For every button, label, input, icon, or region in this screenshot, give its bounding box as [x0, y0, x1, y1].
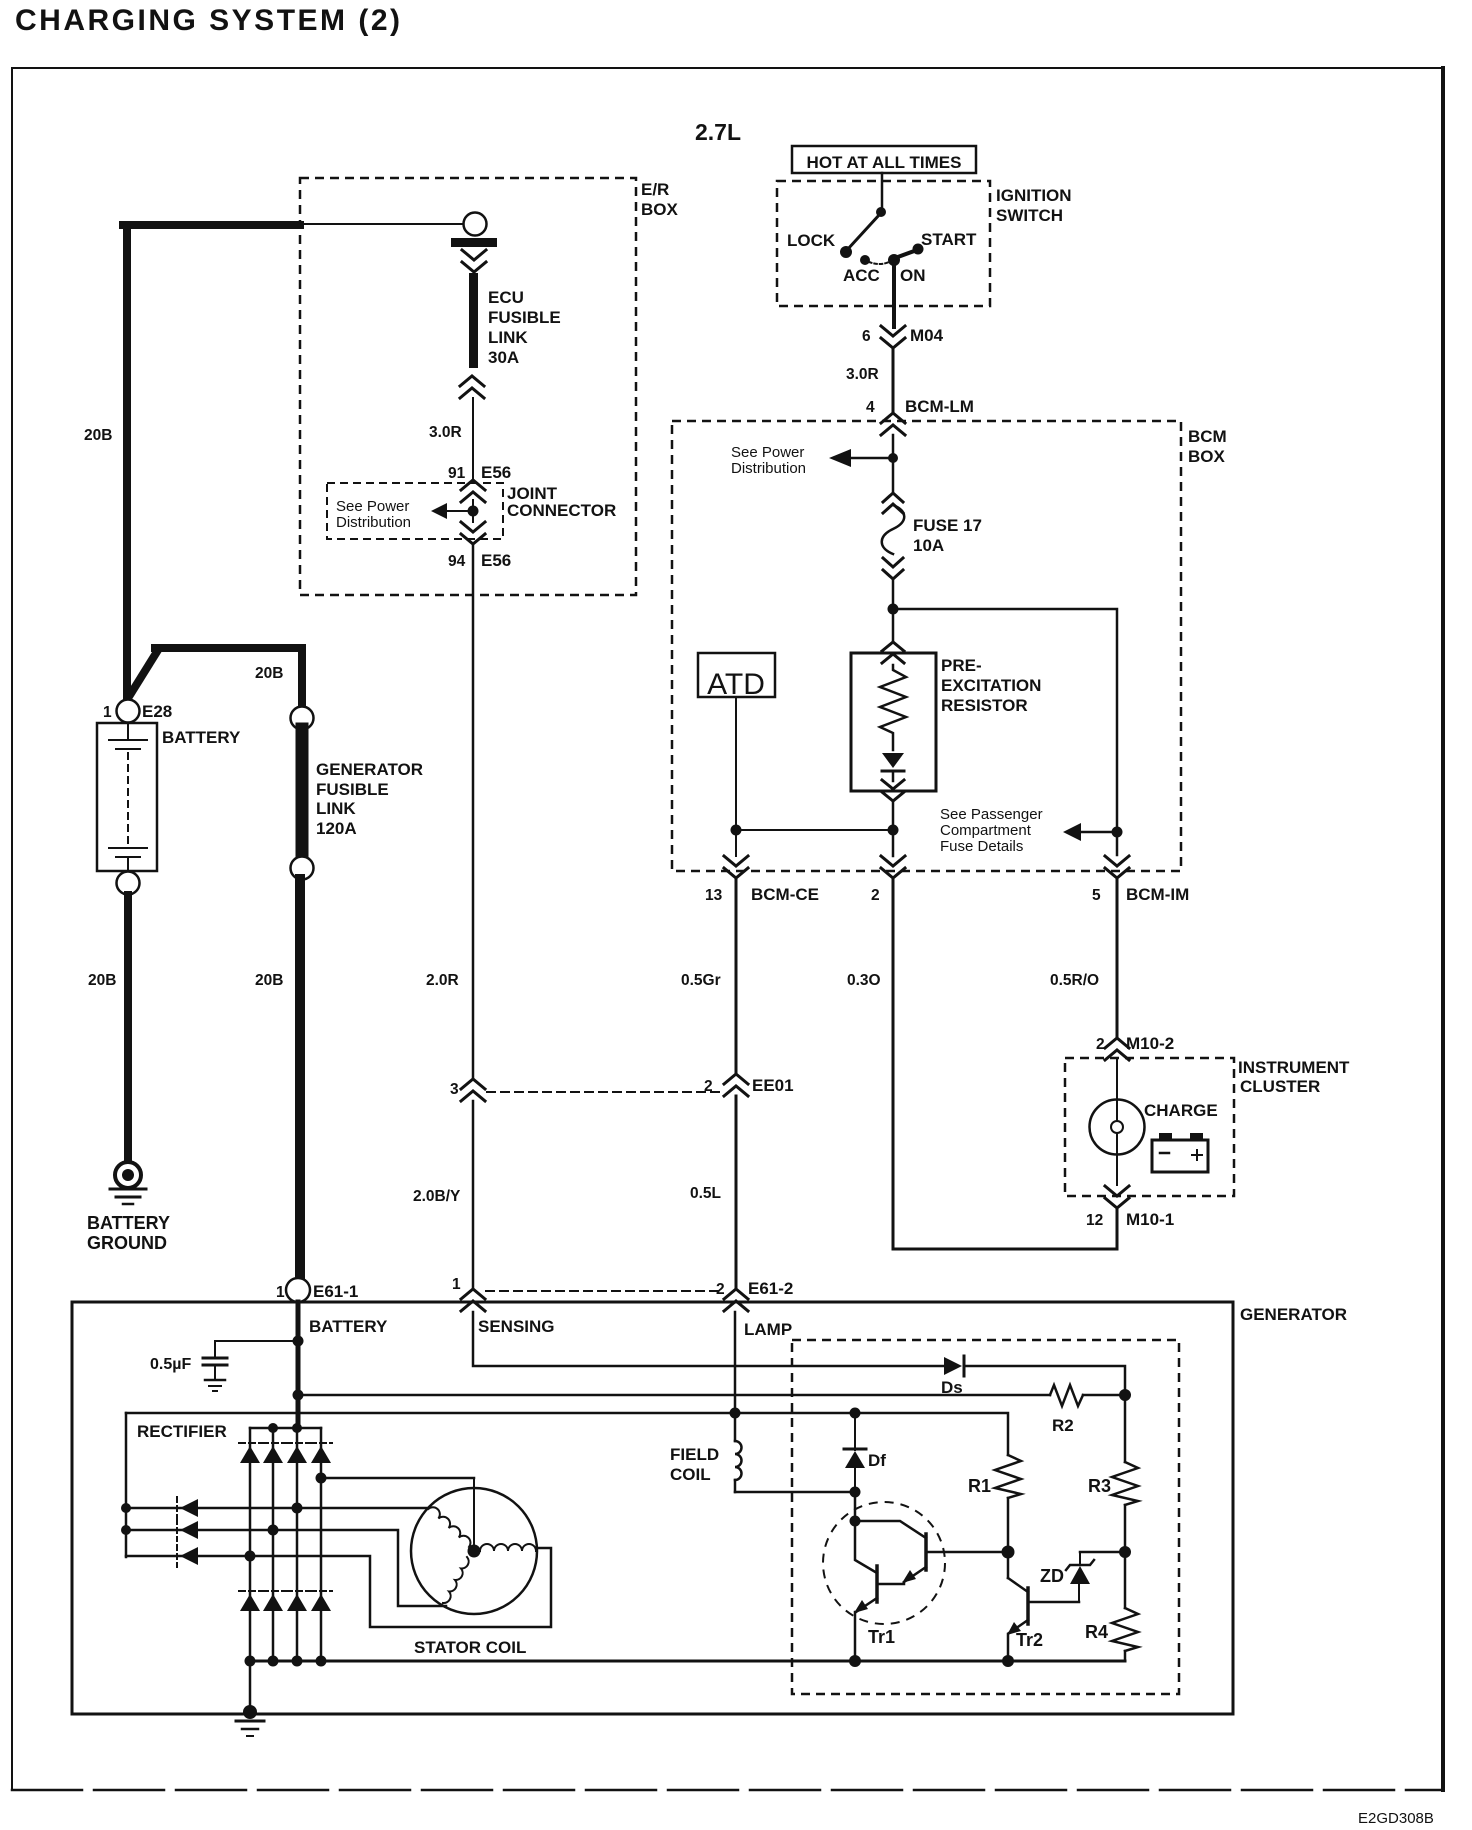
- svg-text:RESISTOR: RESISTOR: [941, 696, 1028, 715]
- svg-text:LINK: LINK: [488, 328, 528, 347]
- capacitor 0.5uF: [203, 1341, 298, 1391]
- wire 0.3O: [892, 878, 895, 1249]
- negative diode 2: [262, 1590, 284, 1592]
- svg-text:5: 5: [1092, 887, 1101, 904]
- junction dot R3 bottom: [1119, 1546, 1131, 1558]
- generator ground symbol: [236, 1720, 264, 1723]
- negative diode 1: [239, 1590, 261, 1592]
- connector 13 BCM-CE chevrons down: [724, 856, 748, 878]
- svg-text:0.5R/O: 0.5R/O: [1050, 972, 1099, 989]
- field coil bottom wire: [735, 1491, 855, 1494]
- wire after Ds: [966, 1366, 1125, 1395]
- svg-text:E61-1: E61-1: [313, 1282, 358, 1301]
- wire to ECU fusible link circle: [300, 223, 463, 225]
- svg-text:94: 94: [448, 553, 466, 570]
- svg-text:6: 6: [862, 328, 871, 345]
- svg-text:E28: E28: [142, 702, 172, 721]
- svg-text:13: 13: [705, 887, 723, 904]
- Tr2 base line: [1028, 1601, 1079, 1604]
- phase line 2: [126, 1530, 446, 1606]
- svg-text:RECTIFIER: RECTIFIER: [137, 1422, 227, 1441]
- wire below M10-1: [1116, 1208, 1119, 1249]
- svg-text:GENERATOR: GENERATOR: [316, 760, 423, 779]
- START contact arm: [895, 250, 917, 258]
- pre-excitation diode: [882, 753, 904, 768]
- instrument cluster dashed box: [1065, 1058, 1234, 1196]
- stator feed line: [321, 1477, 474, 1480]
- resistor R4: [1124, 1552, 1127, 1608]
- connector 2 E61-2 chevrons up: [724, 1289, 748, 1311]
- rectifier column 2: [272, 1428, 275, 1661]
- joint connector dashed box: [327, 483, 503, 539]
- battery indicator icon: [1152, 1133, 1208, 1172]
- svg-text:FUSIBLE: FUSIBLE: [488, 308, 561, 327]
- svg-text:ON: ON: [900, 266, 926, 285]
- see power distribution arrow: [446, 510, 468, 512]
- wire below fuse: [892, 579, 895, 641]
- wire into BCM: [892, 435, 895, 491]
- wire linking branch dots: [736, 829, 893, 831]
- connector 2 M10-2 chevrons up: [1105, 1038, 1129, 1060]
- connector 5 BCM-IM chevrons down: [1105, 856, 1129, 878]
- exciter diode 1: [176, 1497, 178, 1519]
- wire B+ rail to R2: [298, 1394, 1050, 1397]
- wire 20B battery positive vertical: [123, 225, 131, 699]
- wire lamp return horizontal: [893, 1248, 1117, 1251]
- Tr1 output base bar: [875, 1566, 879, 1602]
- svg-text:1: 1: [103, 704, 112, 721]
- svg-text:BCM-IM: BCM-IM: [1126, 885, 1189, 904]
- rectifier ground drop: [249, 1661, 252, 1712]
- svg-text:SENSING: SENSING: [478, 1317, 555, 1336]
- junction dot fuse output: [888, 604, 899, 615]
- battery bottom terminal circle: [117, 872, 140, 895]
- wire 0.5R/O: [1116, 878, 1119, 1038]
- connector chevrons below bar: [462, 250, 486, 272]
- svg-text:FUSE 17: FUSE 17: [913, 516, 982, 535]
- rectifier left rail: [125, 1413, 128, 1557]
- svg-text:0.5µF: 0.5µF: [150, 1356, 191, 1373]
- wire in joint connector: [472, 500, 474, 522]
- dotted arc ACC to ON: [869, 262, 889, 264]
- positive diode 4: [310, 1442, 332, 1444]
- junction dot Df top: [850, 1408, 861, 1419]
- fuse 17 element: [882, 505, 905, 554]
- zener diode ZD: [1078, 1584, 1080, 1602]
- svg-text:12: 12: [1086, 1212, 1103, 1229]
- rectifier top rail: [250, 1427, 321, 1430]
- wire sensing drop: [473, 1312, 944, 1366]
- connector 12 M10-1 chevrons down: [1105, 1186, 1129, 1208]
- svg-text:EXCITATION: EXCITATION: [941, 676, 1041, 695]
- svg-text:Tr2: Tr2: [1016, 1630, 1043, 1650]
- ECU fusible link top bar: [451, 238, 497, 247]
- svg-text:2.0B/Y: 2.0B/Y: [413, 1188, 461, 1205]
- wire lamp into generator: [734, 1312, 737, 1441]
- exciter diode 3: [176, 1545, 178, 1567]
- svg-text:2: 2: [716, 1281, 725, 1298]
- svg-text:FUSIBLE: FUSIBLE: [316, 780, 389, 799]
- wire 20B branch diagonal: [130, 650, 158, 695]
- negative diode 4: [310, 1590, 332, 1592]
- connector 94 E56 chevrons: [461, 522, 485, 544]
- stator coil circle: [411, 1488, 537, 1614]
- connector 1 sensing chevrons: [461, 1289, 485, 1311]
- svg-text:Df: Df: [868, 1451, 886, 1470]
- pre-excitation chevrons bottom: [882, 780, 904, 801]
- svg-text:0.5Gr: 0.5Gr: [681, 972, 721, 989]
- Tr1 driver base bar: [924, 1534, 928, 1570]
- svg-text:PRE-: PRE-: [941, 656, 982, 675]
- junction dot Df bottom: [850, 1487, 861, 1498]
- svg-text:CLUSTER: CLUSTER: [1240, 1077, 1320, 1096]
- svg-text:INSTRUMENT: INSTRUMENT: [1238, 1058, 1350, 1077]
- diode Ds: [944, 1357, 962, 1375]
- svg-text:E61-2: E61-2: [748, 1279, 793, 1298]
- svg-text:BATTERY: BATTERY: [309, 1317, 388, 1336]
- wire 3.0R in E/R box: [472, 398, 474, 479]
- Tr1 driver collector: [855, 1521, 926, 1538]
- battery ground symbol: [110, 1162, 146, 1204]
- svg-text:M04: M04: [910, 326, 944, 345]
- wire 0.5Gr: [735, 878, 738, 1073]
- svg-text:GROUND: GROUND: [87, 1233, 167, 1253]
- svg-text:91: 91: [448, 465, 466, 482]
- svg-text:E56: E56: [481, 463, 511, 482]
- wire 3.0R to BCM: [892, 348, 895, 412]
- svg-text:BOX: BOX: [1188, 447, 1226, 466]
- stator coil upper-left winding: [428, 1507, 470, 1547]
- svg-text:Distribution: Distribution: [336, 514, 411, 531]
- Tr1 driver base line: [928, 1551, 1006, 1554]
- junction dot field coil top: [730, 1408, 741, 1419]
- svg-text:EE01: EE01: [752, 1076, 794, 1095]
- svg-text:20B: 20B: [84, 427, 112, 444]
- LOCK contact dot: [840, 246, 852, 258]
- svg-text:E2GD308B: E2GD308B: [1358, 1810, 1434, 1827]
- connector 4 BCM-LM chevrons up: [881, 413, 905, 435]
- ATD box: [698, 653, 775, 697]
- rectifier column 4: [320, 1428, 323, 1661]
- positive diode 3: [286, 1442, 308, 1444]
- svg-text:LINK: LINK: [316, 799, 356, 818]
- wire 2.0R down from E/R box: [472, 544, 475, 1078]
- field coil rail with R1 drop: [126, 1413, 1008, 1455]
- resistor R1: [995, 1455, 1021, 1498]
- svg-text:See Power: See Power: [731, 444, 804, 461]
- svg-text:2: 2: [1096, 1036, 1105, 1053]
- svg-text:1: 1: [452, 1276, 461, 1293]
- svg-text:ECU: ECU: [488, 288, 524, 307]
- exciter diode 2: [176, 1519, 178, 1541]
- rectifier column 3: [296, 1428, 299, 1661]
- transistor Tr1 darlington circle: [823, 1502, 945, 1624]
- svg-text:0.5L: 0.5L: [690, 1185, 721, 1202]
- connector E28 circle: [117, 700, 140, 723]
- svg-text:BATTERY: BATTERY: [87, 1213, 170, 1233]
- wire 20B branch horizontal: [155, 644, 302, 652]
- BCM box dashed outline: [672, 421, 1181, 871]
- Tr1 output emitter: [856, 1598, 877, 1612]
- connector 3 chevrons: [461, 1079, 485, 1101]
- svg-text:LOCK: LOCK: [787, 231, 836, 250]
- svg-text:R3: R3: [1088, 1476, 1111, 1496]
- pre-excitation resistor box: [851, 653, 936, 791]
- bottom rail: [250, 1660, 1125, 1663]
- wire thick horizontal to E/R box: [123, 221, 300, 229]
- svg-text:BCM-CE: BCM-CE: [751, 885, 819, 904]
- svg-text:CONNECTOR: CONNECTOR: [507, 501, 616, 520]
- svg-text:See Power: See Power: [336, 498, 409, 515]
- svg-text:4: 4: [866, 399, 875, 416]
- svg-text:HOT AT ALL TIMES: HOT AT ALL TIMES: [807, 153, 962, 172]
- svg-text:START: START: [921, 230, 977, 249]
- battery symbol: [97, 723, 157, 871]
- svg-text:20B: 20B: [255, 972, 283, 989]
- voltage regulator dashed box: [792, 1340, 1179, 1694]
- wire 20B battery negative: [124, 895, 132, 1162]
- BCM see power distribution dot: [888, 453, 898, 463]
- svg-text:FIELD: FIELD: [670, 1445, 719, 1464]
- svg-text:ZD: ZD: [1040, 1566, 1064, 1586]
- wire 0.5L: [735, 1096, 738, 1289]
- generator fusible link bottom circle: [291, 857, 314, 880]
- wire ignition to M04: [892, 260, 896, 327]
- svg-text:2.0R: 2.0R: [426, 972, 459, 989]
- svg-text:GENERATOR: GENERATOR: [1240, 1305, 1347, 1324]
- dashed connector line EE01 left: [487, 1091, 722, 1093]
- svg-text:Compartment: Compartment: [940, 822, 1032, 839]
- svg-text:IGNITION: IGNITION: [996, 186, 1072, 205]
- Tr2 base bar: [1026, 1588, 1030, 1624]
- svg-text:BATTERY: BATTERY: [162, 728, 241, 747]
- positive diode 2: [262, 1442, 284, 1444]
- ECU fusible link terminal circle: [464, 213, 487, 236]
- charge warning bulb: [1090, 1100, 1145, 1155]
- Tr1 output collector: [855, 1521, 877, 1573]
- svg-text:R1: R1: [968, 1476, 991, 1496]
- svg-text:3: 3: [450, 1081, 459, 1098]
- svg-text:3.0R: 3.0R: [429, 424, 462, 441]
- ignition switch dashed box: [777, 181, 990, 306]
- svg-text:120A: 120A: [316, 819, 357, 838]
- svg-text:1: 1: [276, 1284, 285, 1301]
- ignition switch common dot: [876, 207, 886, 217]
- connector 91 E56 chevrons: [461, 480, 485, 502]
- junction dot B+ rail: [293, 1390, 304, 1401]
- svg-text:E/R: E/R: [641, 180, 669, 199]
- wire 20B branch vertical: [298, 648, 306, 706]
- junction dot ATD branch: [731, 825, 742, 836]
- pre-excitation chevrons top: [882, 642, 904, 663]
- wire battery feed inside generator: [296, 1302, 301, 1428]
- generator fusible link top circle: [291, 707, 314, 730]
- junction dot R2 right: [1119, 1389, 1131, 1401]
- svg-text:LAMP: LAMP: [744, 1320, 792, 1339]
- svg-text:Fuse Details: Fuse Details: [940, 838, 1023, 855]
- svg-text:20B: 20B: [88, 972, 116, 989]
- connector chevrons below link: [460, 376, 484, 398]
- wire from ATD: [735, 697, 737, 856]
- fuse 17 chevrons top: [883, 493, 903, 513]
- junction dot capacitor branch: [293, 1336, 304, 1347]
- see passenger compartment arrow: [1080, 831, 1112, 834]
- ECU fusible link thick bar 30A: [469, 273, 478, 368]
- connector 2 EE01 chevrons up: [724, 1074, 748, 1096]
- E/R box dashed outline: [300, 178, 636, 595]
- svg-text:BCM-LM: BCM-LM: [905, 397, 974, 416]
- transistor Tr2: [1007, 1552, 1010, 1578]
- ACC contact dot: [860, 255, 870, 265]
- svg-text:R2: R2: [1052, 1416, 1074, 1435]
- wire to Tr1 collector node: [854, 1492, 857, 1521]
- wire branch to BCM-IM: [893, 609, 1117, 855]
- junction dot R1 bottom: [1002, 1546, 1015, 1559]
- svg-text:Ds: Ds: [941, 1378, 963, 1397]
- connector 1 E61-1 circle: [286, 1278, 310, 1302]
- connector 2 chevrons down: [881, 856, 905, 878]
- connector 6 M04 chevrons down: [881, 326, 905, 348]
- Tr1 output base link: [877, 1583, 904, 1586]
- svg-text:2: 2: [704, 1078, 713, 1095]
- svg-text:2: 2: [871, 887, 880, 904]
- svg-text:2.7L: 2.7L: [695, 119, 741, 145]
- wire from hot box: [881, 173, 884, 208]
- svg-text:CHARGE: CHARGE: [1144, 1101, 1218, 1120]
- Tr2 emitter: [1009, 1620, 1028, 1633]
- svg-text:20B: 20B: [255, 665, 283, 682]
- junction dot joint connector: [468, 506, 479, 517]
- svg-text:R4: R4: [1085, 1622, 1108, 1642]
- diode Df: [854, 1413, 856, 1450]
- field coil: [735, 1441, 742, 1480]
- resistor R3: [1124, 1395, 1127, 1462]
- pre-excitation resistor zigzag: [880, 665, 906, 750]
- phase line 1: [126, 1507, 428, 1510]
- wire 2.0B/Y: [472, 1101, 475, 1289]
- svg-text:Tr1: Tr1: [868, 1627, 895, 1647]
- BCM see power distribution arrow: [850, 457, 888, 460]
- wire below pre-excitation: [892, 801, 895, 856]
- negative diode 3: [286, 1590, 308, 1592]
- Tr1 driver emitter: [904, 1567, 926, 1582]
- svg-text:0.3O: 0.3O: [847, 972, 881, 989]
- ON contact dot: [888, 254, 900, 266]
- stator coil lower-left winding: [443, 1557, 469, 1603]
- generator fusible link thick bar: [296, 729, 309, 857]
- svg-text:BCM: BCM: [1188, 427, 1227, 446]
- dashed connector line E61: [486, 1290, 720, 1292]
- wire to charge bulb: [1116, 1060, 1118, 1121]
- generator box: [72, 1302, 1233, 1714]
- svg-text:SWITCH: SWITCH: [996, 206, 1063, 225]
- ignition switch arm to LOCK: [847, 214, 880, 250]
- svg-text:E56: E56: [481, 551, 511, 570]
- svg-text:3.0R: 3.0R: [846, 366, 879, 383]
- rectifier column 1: [249, 1428, 252, 1661]
- svg-text:M10-1: M10-1: [1126, 1210, 1174, 1229]
- fuse 17 chevrons bottom: [883, 558, 903, 579]
- svg-text:ACC: ACC: [843, 266, 880, 285]
- svg-text:STATOR COIL: STATOR COIL: [414, 1638, 526, 1657]
- junction dot pre-excitation branch: [888, 825, 899, 836]
- wire 20B to E61-1: [295, 879, 305, 1278]
- phase line 3: [126, 1548, 551, 1627]
- svg-text:See Passenger: See Passenger: [940, 806, 1043, 823]
- positive diode 1: [239, 1442, 261, 1444]
- svg-text:Distribution: Distribution: [731, 460, 806, 477]
- hot at all times box: [792, 146, 976, 173]
- svg-text:BOX: BOX: [641, 200, 679, 219]
- svg-text:CHARGING SYSTEM (2): CHARGING SYSTEM (2): [15, 4, 403, 37]
- stator coil right winding: [480, 1544, 536, 1551]
- svg-text:COIL: COIL: [670, 1465, 711, 1484]
- svg-text:30A: 30A: [488, 348, 519, 367]
- resistor R2: [1050, 1385, 1083, 1406]
- START contact dot: [913, 244, 924, 255]
- svg-text:10A: 10A: [913, 536, 944, 555]
- svg-text:M10-2: M10-2: [1126, 1034, 1174, 1053]
